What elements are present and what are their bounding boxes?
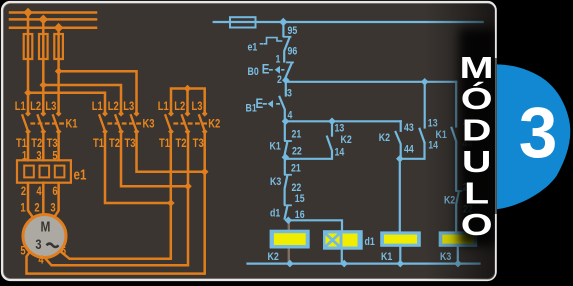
svg-text:43: 43 <box>404 122 414 134</box>
svg-text:L3: L3 <box>191 100 202 113</box>
svg-text:O: O <box>461 207 493 242</box>
svg-text:d1: d1 <box>270 208 281 220</box>
svg-text:T3: T3 <box>124 137 135 150</box>
svg-text:M: M <box>460 50 494 85</box>
svg-text:1: 1 <box>20 201 25 214</box>
svg-text:K1: K1 <box>270 140 282 152</box>
svg-text:3: 3 <box>519 92 558 172</box>
svg-text:16: 16 <box>295 209 305 221</box>
svg-text:K2: K2 <box>341 134 353 146</box>
svg-text:22: 22 <box>292 146 302 158</box>
svg-text:L3: L3 <box>45 100 56 113</box>
svg-text:e1: e1 <box>74 166 87 183</box>
svg-text:L3: L3 <box>123 100 134 113</box>
svg-text:15: 15 <box>295 193 305 205</box>
svg-text:3: 3 <box>35 237 41 252</box>
svg-text:K1: K1 <box>66 117 78 130</box>
svg-text:T1: T1 <box>93 137 104 150</box>
svg-text:14: 14 <box>335 146 345 158</box>
svg-text:2: 2 <box>21 185 26 198</box>
svg-text:K1: K1 <box>381 251 393 263</box>
svg-text:2: 2 <box>277 74 282 86</box>
svg-text:3: 3 <box>287 88 292 100</box>
svg-text:Ó: Ó <box>461 80 493 116</box>
svg-text:T3: T3 <box>47 137 58 150</box>
svg-text:21: 21 <box>291 163 301 175</box>
svg-text:3: 3 <box>50 201 55 214</box>
svg-text:K2: K2 <box>208 117 220 130</box>
svg-text:L2: L2 <box>30 100 41 113</box>
svg-text:6: 6 <box>61 245 66 258</box>
svg-text:96: 96 <box>288 46 298 58</box>
svg-text:21: 21 <box>292 128 302 140</box>
svg-text:T2: T2 <box>109 137 120 150</box>
svg-text:M: M <box>41 218 51 234</box>
svg-text:95: 95 <box>288 25 298 37</box>
svg-text:L: L <box>464 175 489 210</box>
svg-text:K2: K2 <box>379 132 391 144</box>
svg-text:1: 1 <box>276 54 281 66</box>
svg-text:K3: K3 <box>143 117 155 130</box>
svg-text:B0: B0 <box>248 66 260 78</box>
svg-text:D: D <box>462 112 492 147</box>
svg-text:U: U <box>462 144 492 179</box>
svg-text:T2: T2 <box>31 137 42 150</box>
svg-text:T1: T1 <box>16 137 27 150</box>
svg-text:L2: L2 <box>174 100 185 113</box>
svg-text:4: 4 <box>288 110 293 122</box>
svg-text:44: 44 <box>404 144 414 156</box>
svg-text:13: 13 <box>335 122 345 134</box>
svg-text:5: 5 <box>52 149 57 162</box>
svg-text:4: 4 <box>38 254 43 267</box>
svg-text:e1: e1 <box>248 42 258 54</box>
svg-text:T1: T1 <box>159 137 170 150</box>
svg-text:L2: L2 <box>108 100 119 113</box>
svg-text:E: E <box>262 62 270 77</box>
svg-text:5: 5 <box>20 245 25 258</box>
svg-text:2: 2 <box>34 201 39 214</box>
svg-text:T2: T2 <box>175 137 186 150</box>
svg-text:6: 6 <box>52 185 57 198</box>
svg-text:1: 1 <box>22 149 27 162</box>
svg-text:L1: L1 <box>158 100 169 113</box>
svg-text:K2: K2 <box>268 251 280 263</box>
svg-text:L1: L1 <box>15 100 26 113</box>
svg-text:4: 4 <box>36 185 41 198</box>
svg-text:L1: L1 <box>92 100 103 113</box>
svg-text:3: 3 <box>36 149 41 162</box>
svg-text:E: E <box>256 96 264 111</box>
svg-text:K3: K3 <box>270 176 282 188</box>
svg-text:d1: d1 <box>365 236 376 248</box>
svg-text:T3: T3 <box>193 137 204 150</box>
